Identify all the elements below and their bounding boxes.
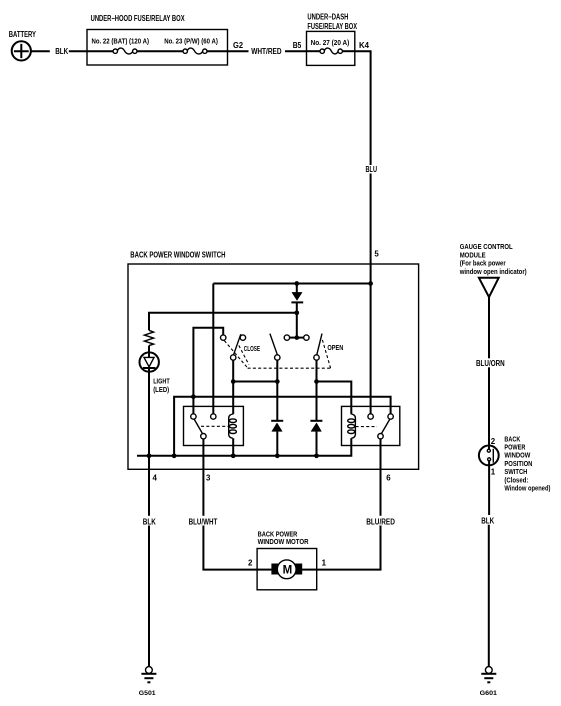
svg-text:BLU/WHT: BLU/WHT <box>189 517 218 526</box>
LED light <box>140 352 159 455</box>
svg-text:BLK: BLK <box>55 47 68 56</box>
wire relay1 output to pin 3 <box>202 439 204 469</box>
wire into fuse No.22 <box>87 50 113 52</box>
fuse No.27 <box>320 48 342 54</box>
mechanical link dashed horizontal <box>248 367 331 369</box>
wire ground blade bus <box>174 397 391 456</box>
svg-text:No. 22 (BAT) (120 A): No. 22 (BAT) (120 A) <box>92 37 150 46</box>
wire internal ground bus <box>137 446 351 456</box>
junction coil L1 ground <box>231 453 236 458</box>
svg-text:OPEN: OPEN <box>327 343 343 352</box>
svg-text:BATTERY: BATTERY <box>9 30 37 39</box>
junction blade bus ground <box>172 453 177 458</box>
svg-text:WHT/RED: WHT/RED <box>251 47 282 56</box>
junction diode D3 ground <box>314 453 319 458</box>
wire power branch horizontal <box>213 283 370 285</box>
wire module down BLU/ORN upper <box>488 297 490 358</box>
wire CLOSE junction to diode D2 column <box>233 381 277 383</box>
relay2 output contact <box>378 434 383 439</box>
relay1 blade <box>194 419 202 433</box>
mechanical link dashed blade <box>239 345 249 364</box>
wire resistor to LED <box>148 346 150 358</box>
svg-text:4: 4 <box>153 474 158 483</box>
svg-text:2: 2 <box>491 437 496 446</box>
under-hood fuse/relay box <box>87 30 228 66</box>
wire battery to BLK label <box>31 50 50 52</box>
svg-text:window open indicator): window open indicator) <box>459 267 527 276</box>
diode D3 (pointing up) <box>310 421 322 456</box>
svg-text:WINDOW MOTOR: WINDOW MOTOR <box>258 537 310 546</box>
OPEN bottom contact <box>314 355 319 360</box>
svg-text:G501: G501 <box>139 690 156 697</box>
wire coil L1 to ground bus <box>232 438 234 456</box>
junction OPEN link <box>314 379 319 384</box>
relay1 NO contact <box>211 414 216 419</box>
wire G2 to WHT/RED <box>228 50 249 52</box>
CLOSE switch blade <box>233 334 240 355</box>
back power window motor title <box>258 530 310 547</box>
junction LED feed <box>294 310 299 315</box>
position switch label <box>504 434 550 492</box>
wire BLK to under-hood box <box>69 50 87 52</box>
relay RLY2 box <box>342 406 400 445</box>
wire WHT/RED to under-dash box <box>285 50 307 52</box>
resistor R1 <box>144 330 153 345</box>
svg-text:FUSE/RELAY BOX: FUSE/RELAY BOX <box>307 22 357 31</box>
svg-text:BLU/ORN: BLU/ORN <box>476 359 505 368</box>
wire pin 6 to motor pin 1 <box>317 526 381 570</box>
wire BLU down to switch pin 5 <box>370 174 372 284</box>
relay RLY1 box <box>184 406 244 445</box>
junction LED ground <box>147 453 152 458</box>
junction middle link <box>275 379 280 384</box>
relay1 output contact <box>201 434 206 439</box>
relay coil L2 <box>348 414 356 438</box>
ground G601 <box>481 667 496 683</box>
wire OPEN junction to coil L2 <box>317 382 352 415</box>
svg-text:BACK POWER WINDOW SWITCH: BACK POWER WINDOW SWITCH <box>130 250 225 259</box>
wire pin 6 BLU/RED upper <box>380 469 382 516</box>
rocker common contacts <box>284 335 309 340</box>
CLOSE bottom contact <box>231 355 236 360</box>
svg-text:BLU/RED: BLU/RED <box>366 517 395 526</box>
svg-text:M: M <box>283 565 293 577</box>
under-dash fuse/relay box title <box>307 13 357 32</box>
junction diode D2 ground <box>275 453 280 458</box>
wire position switch down BLK upper <box>488 461 490 515</box>
back power window position switch S1 <box>479 446 499 466</box>
svg-text:BLU: BLU <box>366 165 378 174</box>
gauge control module connector <box>479 278 499 297</box>
wire BLK right lower <box>488 525 490 667</box>
svg-text:No. 27 (20 A): No. 27 (20 A) <box>311 38 350 47</box>
svg-text:B5: B5 <box>293 41 302 50</box>
back power window switch box <box>128 264 419 469</box>
wire pin 3 BLU/WHT upper <box>202 469 204 516</box>
fuse No.23 <box>183 48 207 54</box>
relay1 link dashed <box>201 425 229 427</box>
relay1 pivot contact <box>191 414 196 419</box>
relay2 NO contact <box>368 414 373 419</box>
wire pin 4 BLK lower <box>148 526 150 667</box>
battery symbol <box>12 41 31 60</box>
fuse No.22 <box>113 48 137 54</box>
svg-text:6: 6 <box>386 474 391 483</box>
wire into fuse No.27 <box>307 50 321 52</box>
svg-text:1: 1 <box>491 468 496 477</box>
relay2 link dashed <box>356 426 377 428</box>
wire pin 3 to motor pin 2 <box>203 526 257 570</box>
svg-text:CLOSE: CLOSE <box>244 344 260 353</box>
CLOSE contact <box>240 335 245 340</box>
wire K4 corner down <box>355 51 371 165</box>
wire pin 4 BLK upper <box>148 456 150 516</box>
wire power down to relay1 NO contact <box>212 284 214 414</box>
gauge control module label <box>459 242 527 276</box>
mechanical link dashed right <box>322 339 330 368</box>
wire rocker left contact feed <box>193 328 223 414</box>
svg-text:(LED): (LED) <box>153 385 169 394</box>
wire fuse27 to box edge <box>342 50 354 52</box>
back power window motor box <box>257 549 317 590</box>
motor M1 <box>257 560 317 579</box>
svg-text:UNDER−DASH: UNDER−DASH <box>307 13 348 22</box>
wire diode to rocker common <box>296 313 298 336</box>
relay2 blade <box>381 419 389 433</box>
svg-text:BLK: BLK <box>481 516 494 525</box>
wire pin5 down to relay2 NO contact <box>370 284 372 414</box>
middle bottom contact <box>275 355 280 360</box>
svg-text:1: 1 <box>322 559 327 568</box>
diode D1 (top, pointing down) <box>291 284 303 313</box>
wire fuse22 to fuse23 <box>137 50 183 52</box>
junction relay1 pivot <box>191 394 196 399</box>
svg-text:3: 3 <box>206 474 211 483</box>
svg-text:K4: K4 <box>359 41 370 50</box>
wire relay2 output to pin 6 <box>380 439 382 469</box>
wire coil L2 to ground bus <box>350 438 352 445</box>
svg-text:No. 23 (P/W) (60 A): No. 23 (P/W) (60 A) <box>164 37 218 46</box>
svg-text:2: 2 <box>248 559 253 568</box>
junction CLOSE link <box>231 379 236 384</box>
wire fuse23 to box edge <box>207 50 228 52</box>
wire LED feed horizontal <box>149 313 297 331</box>
svg-text:5: 5 <box>374 249 379 258</box>
under-dash fuse/relay box <box>307 31 355 65</box>
relay2 pivot contact <box>388 414 393 419</box>
LED label <box>153 376 170 394</box>
wire OPEN contact down to diode D3 <box>316 360 318 421</box>
rocker left contact <box>221 335 226 340</box>
wire middle contact down to diode D2 <box>276 360 278 421</box>
junction pin5 <box>368 281 373 286</box>
svg-text:G2: G2 <box>233 41 244 50</box>
wire CLOSE contact to coil L1 <box>232 360 234 414</box>
svg-text:G601: G601 <box>480 690 498 697</box>
wire BLU/ORN lower to position switch <box>488 367 490 449</box>
mechanical link dashed left <box>224 341 247 368</box>
diode D2 (pointing up) <box>271 421 283 456</box>
svg-text:UNDER−HOOD FUSE/RELAY BOX: UNDER−HOOD FUSE/RELAY BOX <box>91 14 186 23</box>
svg-text:BLK: BLK <box>143 517 156 526</box>
middle blade <box>270 334 278 356</box>
svg-text:Window opened): Window opened) <box>504 484 550 493</box>
junction diode top <box>294 281 299 286</box>
relay coil L1 <box>229 414 237 438</box>
OPEN switch blade <box>317 334 322 356</box>
ground G501 <box>141 667 156 683</box>
